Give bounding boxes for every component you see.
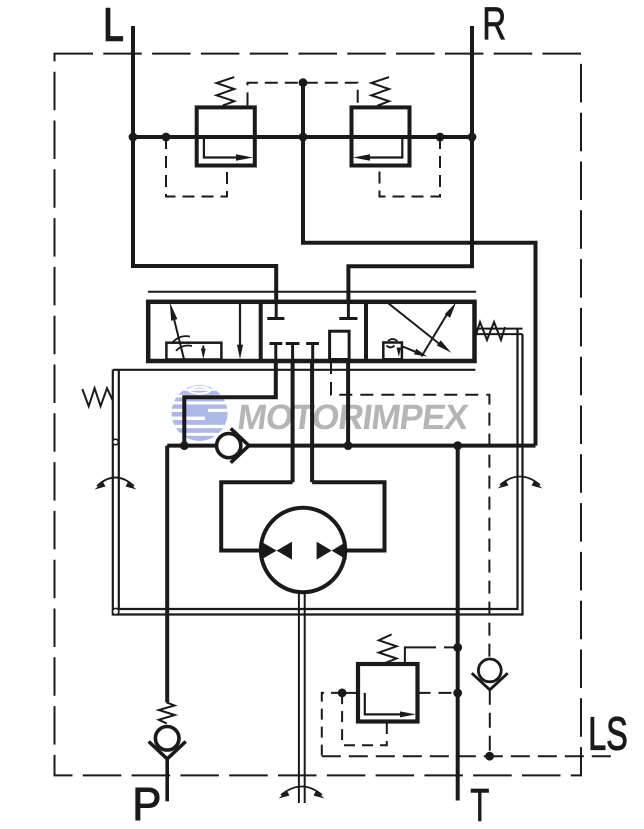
wire P line down bbox=[165, 446, 169, 703]
LS dashed line from valve bbox=[331, 361, 489, 659]
wire gerotor port lines bbox=[293, 361, 313, 482]
center compartment top cap R bbox=[347, 303, 350, 317]
wire tank line from relief center down right side bbox=[303, 83, 536, 446]
junction dots middle section bbox=[180, 441, 189, 450]
svg-text:MOTORIMPEX: MOTORIMPEX bbox=[235, 398, 471, 437]
right rotation arrow bbox=[500, 477, 540, 486]
LS gallery box in valve bbox=[330, 331, 350, 359]
down arrow at left-center bbox=[239, 303, 241, 345]
wire main line between relief valves bbox=[133, 135, 472, 139]
small circle bottom-left enclosure corner bbox=[113, 608, 119, 614]
right compartment small box bbox=[383, 343, 402, 360]
outer dashed enclosure bbox=[55, 54, 582, 776]
pilot line dashed top between V1 and V2 bbox=[248, 83, 358, 106]
V3 pilot loop dashed bbox=[342, 693, 387, 745]
curve above right small box bbox=[388, 339, 397, 341]
gerotor loop right bbox=[312, 482, 384, 550]
spring of V2 bbox=[371, 77, 389, 106]
LS check valve bbox=[478, 659, 501, 682]
V3 outlet to tank line bbox=[405, 647, 422, 663]
left compartment small box bbox=[166, 343, 221, 360]
svg-text:LS: LS bbox=[588, 709, 627, 760]
divider left bbox=[259, 303, 263, 359]
LS dashed horizontal line bbox=[322, 755, 612, 757]
left rotation arrow bbox=[97, 478, 134, 487]
spring of V1 bbox=[217, 77, 235, 106]
inlet check valve at P bbox=[159, 702, 175, 723]
bottom cap gerotor A bbox=[286, 344, 300, 360]
gerotor loop left bbox=[221, 482, 292, 550]
steering unit enclosure outer U bbox=[113, 334, 523, 614]
steering unit enclosure inner U bbox=[119, 329, 518, 609]
wire T port from valve down bbox=[346, 361, 350, 446]
wire L port line bbox=[133, 26, 276, 303]
divider right bbox=[364, 303, 368, 359]
gerotor metering motor bbox=[261, 508, 345, 592]
relief valve V2 arrow bbox=[369, 137, 402, 158]
pilot line dashed below V1 bbox=[166, 137, 227, 197]
relief valve V1 body (left shock valve) bbox=[197, 107, 255, 165]
bottom cap P bbox=[270, 344, 283, 360]
steering wheel rotation arrow bbox=[281, 787, 322, 796]
left compartment diagonal arrow bbox=[172, 309, 185, 360]
right compartment crossed arrow 1 bbox=[386, 302, 442, 347]
svg-text:R: R bbox=[482, 0, 506, 50]
relief valve V3 body (main relief) bbox=[358, 664, 418, 722]
centering spring right with rails bbox=[476, 329, 523, 335]
directional valve U1 body bbox=[148, 302, 474, 361]
V3 left inlet bbox=[342, 692, 358, 694]
bottom cap gerotor B bbox=[306, 344, 319, 360]
svg-text:L: L bbox=[103, 0, 123, 51]
curve inside right small box bbox=[387, 346, 395, 348]
V3 LS pilot dashed bbox=[322, 693, 342, 756]
V3 right pilot dashed bbox=[418, 692, 458, 694]
wire T return line down bbox=[456, 446, 460, 801]
wire R port line bbox=[348, 26, 472, 303]
small circle on left enclosure edge bbox=[113, 439, 119, 445]
small down arrow right box bbox=[397, 348, 401, 358]
steering unit enclosure top line bbox=[113, 369, 476, 371]
svg-text:T: T bbox=[470, 780, 489, 829]
right compartment crossed arrow 2 bbox=[422, 311, 450, 357]
small down arrow in left box bbox=[202, 346, 204, 353]
relief valve V2 body (right shock valve) bbox=[352, 107, 410, 165]
check valve C1 bbox=[217, 434, 241, 458]
svg-text:P: P bbox=[132, 778, 161, 829]
relief valve V1 arrow bbox=[204, 137, 237, 158]
junction dots bottom section bbox=[453, 643, 462, 652]
wire port A to left bbox=[184, 361, 275, 446]
directional valve U1 feedback line above bbox=[148, 291, 476, 293]
pilot line dashed below V2 bbox=[380, 137, 441, 197]
watermark globe logo bbox=[170, 385, 233, 441]
center compartment top cap L bbox=[275, 303, 278, 317]
wire P supply horizontal with check valve bbox=[167, 444, 535, 448]
centering spring left (W) bbox=[82, 388, 112, 406]
relief valve V3 arrow bbox=[365, 693, 400, 715]
left compartment throttle arcs bbox=[173, 336, 191, 342]
junction dots top section bbox=[129, 133, 138, 142]
drive shaft double line bbox=[299, 592, 305, 803]
right compartment short arrow bbox=[402, 346, 417, 352]
spring of V3 bbox=[379, 634, 397, 663]
